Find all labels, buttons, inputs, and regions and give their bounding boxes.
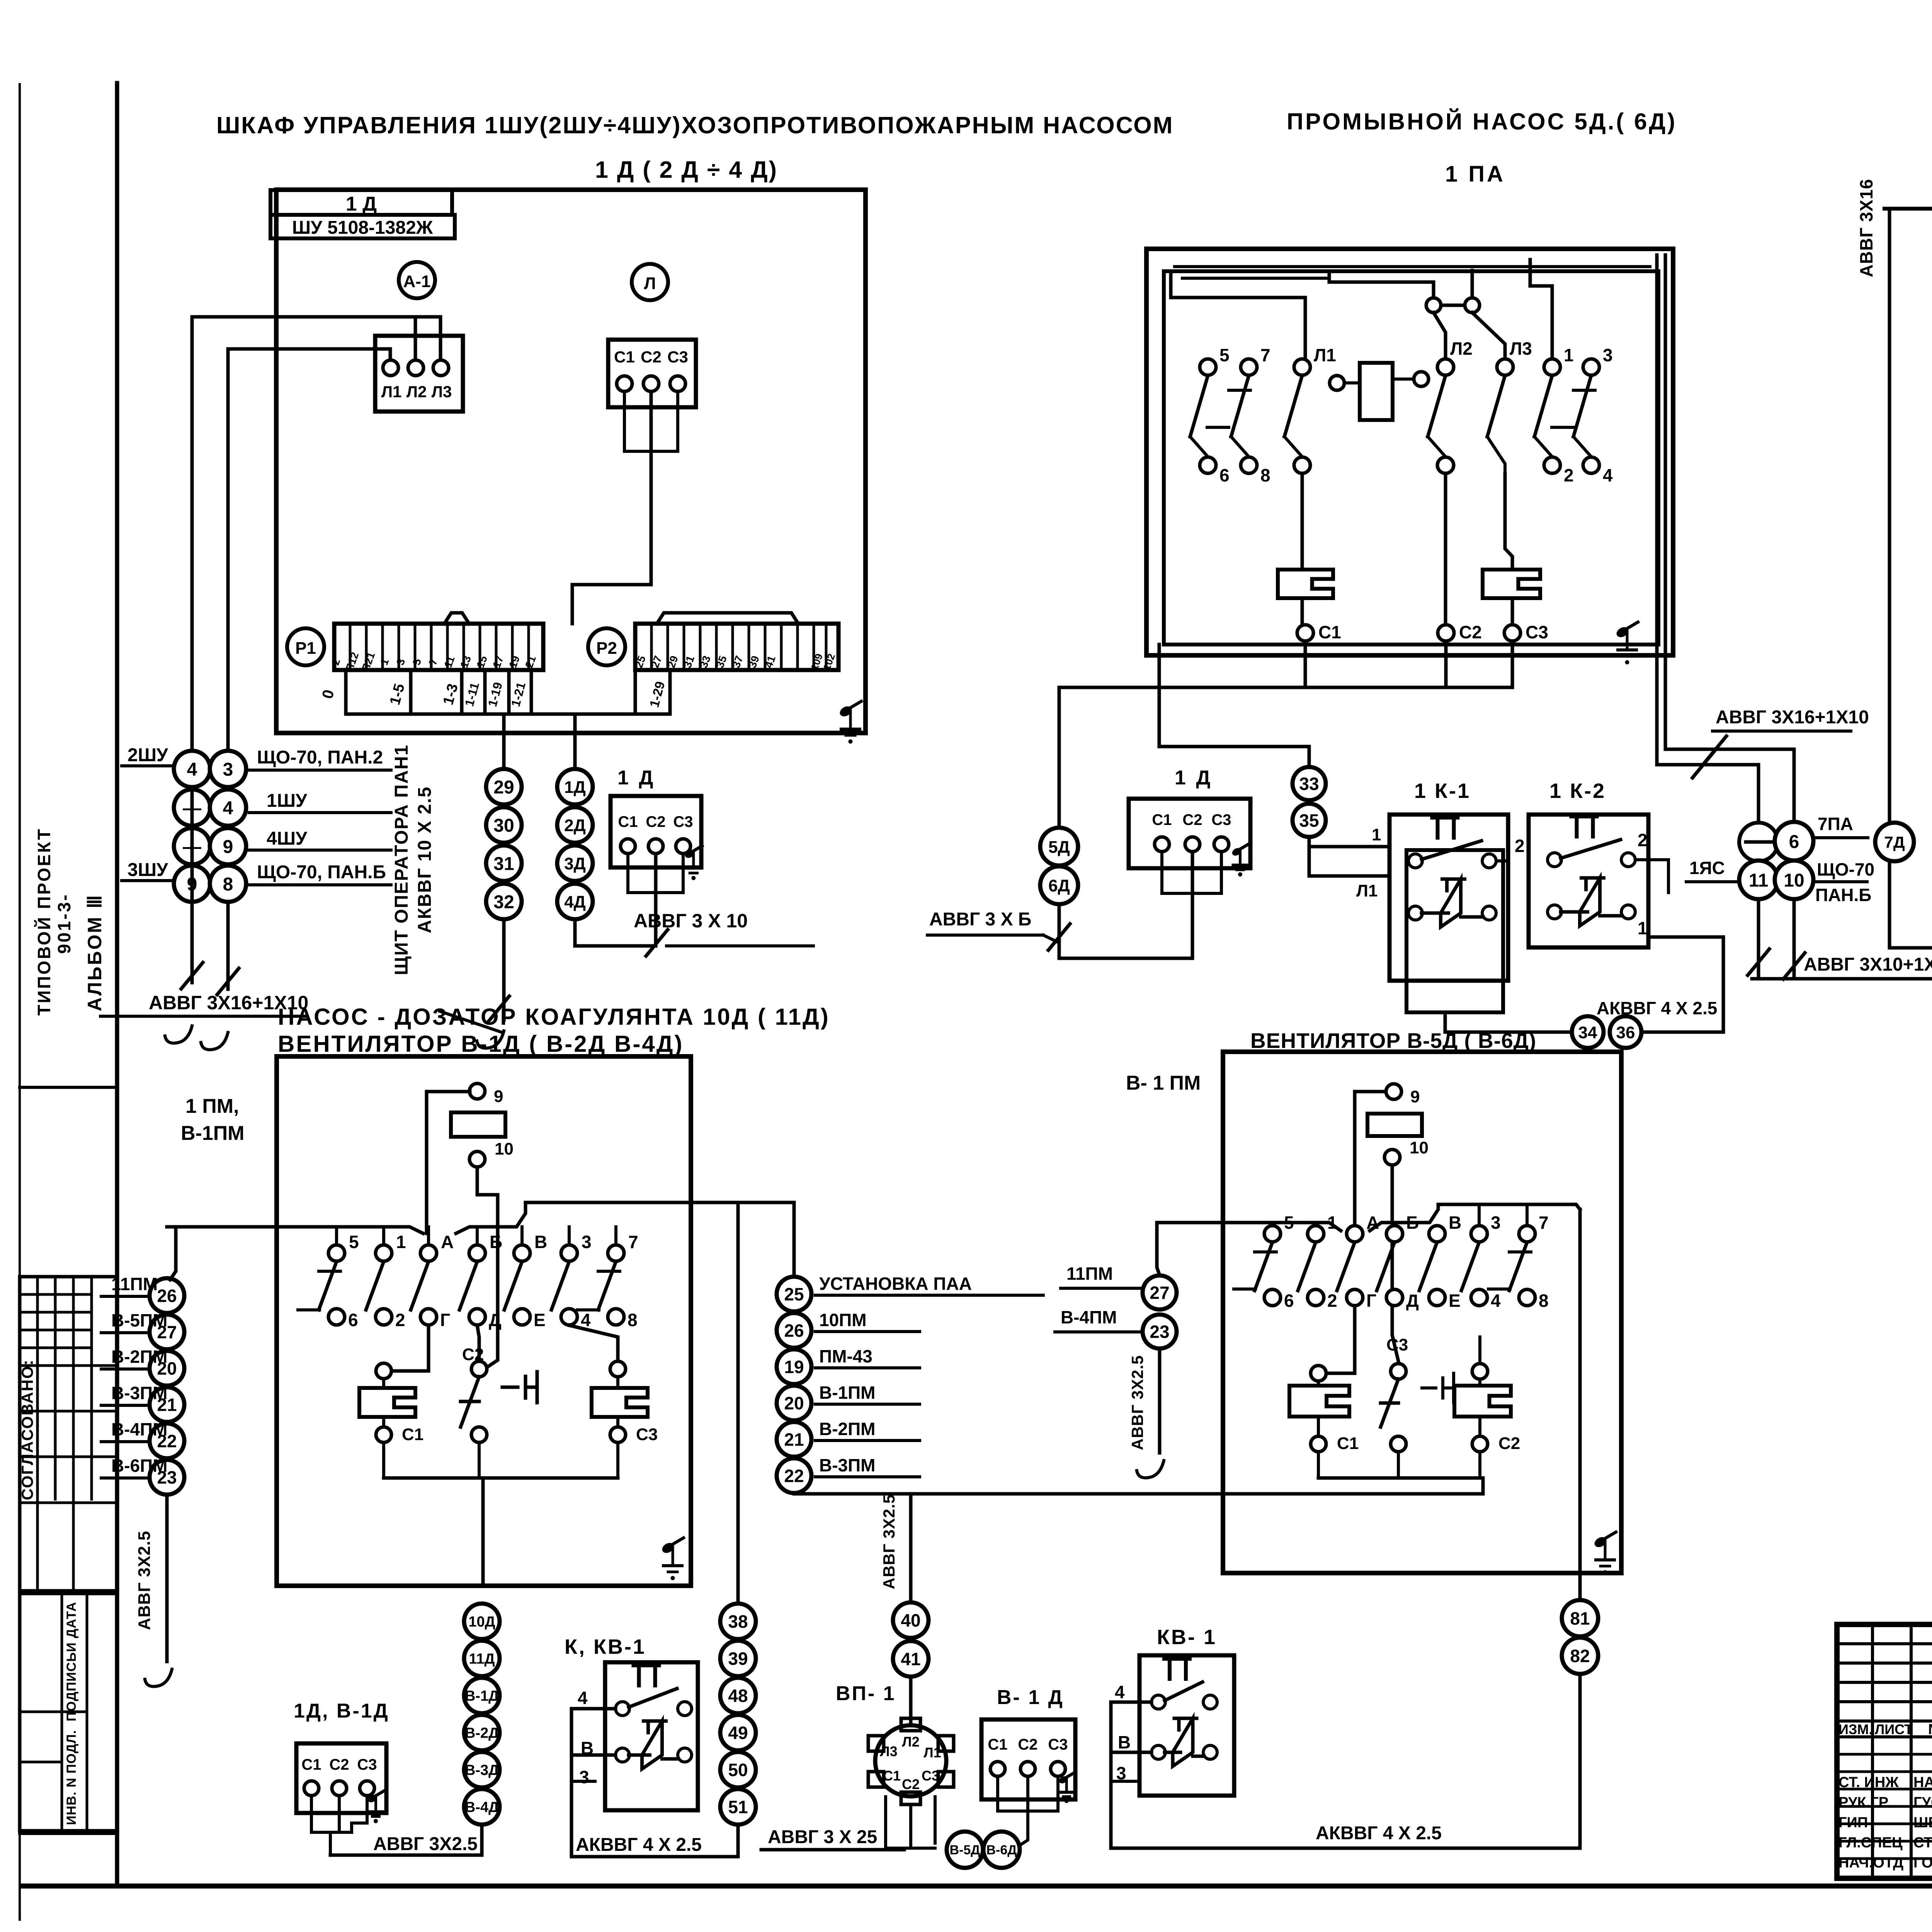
wire 40 up rotated label <box>880 1494 911 1602</box>
svg-text:В-6ПМ: В-6ПМ <box>111 1456 168 1476</box>
svg-text:АВВГ 3Х2.5: АВВГ 3Х2.5 <box>135 1531 154 1630</box>
svg-text:1Д: 1Д <box>564 778 586 797</box>
svg-text:ЩО-70: ЩО-70 <box>1817 859 1874 879</box>
svg-text:11: 11 <box>442 655 457 669</box>
wire top junctions <box>1329 270 1505 366</box>
rotated label Щит оператора ПАН1 <box>391 744 412 975</box>
svg-text:АВВГ 3Х16+1Х10: АВВГ 3Х16+1Х10 <box>1716 707 1869 728</box>
svg-text:С2: С2 <box>1459 622 1482 642</box>
motor box 1Д В-1Д <box>294 1700 389 1823</box>
contact bars block4 <box>298 1271 620 1310</box>
svg-text:8: 8 <box>1539 1291 1549 1311</box>
terminals block2 row1 <box>1200 338 1613 375</box>
wire bus to 25 <box>793 1202 796 1277</box>
title 1Д (2Д-4Д) <box>595 156 778 183</box>
svg-text:А-1: А-1 <box>403 272 431 291</box>
svg-text:7: 7 <box>1260 345 1270 365</box>
wire to column 29 <box>502 714 506 769</box>
svg-text:С3: С3 <box>1211 811 1231 828</box>
sidebar text 901-3- <box>54 893 74 954</box>
wire В-1Д leads <box>998 1776 1058 1845</box>
cable circles 25-22 right <box>777 1274 1043 1493</box>
svg-text:27: 27 <box>1150 1283 1169 1303</box>
cable circles В-5Д В-6Д <box>947 1832 1020 1868</box>
terminal strip Р2 subbox 1-29 <box>635 670 670 714</box>
cable circles 1Д-4Д <box>557 769 593 919</box>
svg-text:Л3: Л3 <box>880 1743 897 1759</box>
svg-text:С3: С3 <box>357 1756 377 1773</box>
svg-text:АВВГ 3 Х Б: АВВГ 3 Х Б <box>929 909 1031 930</box>
svg-text:Е: Е <box>534 1310 546 1330</box>
wire right drop to 38 <box>736 1202 740 1604</box>
svg-text:Л1: Л1 <box>381 383 402 401</box>
wire 11 10 down <box>1748 899 1805 979</box>
svg-text:Д: Д <box>1406 1291 1419 1311</box>
wire drop 2ШУ-3ШУ left <box>190 753 194 983</box>
svg-text:РУК.ГР.: РУК.ГР. <box>1838 1794 1890 1811</box>
svg-text:НАСОС - ДОЗАТОР КОАГУЛЯНТА 10: НАСОС - ДОЗАТОР КОАГУЛЯНТА 10Д ( 11Д) <box>278 1004 830 1030</box>
svg-text:ЛИСТ: ЛИСТ <box>1875 1721 1913 1737</box>
svg-text:АВВГ 3Х16: АВВГ 3Х16 <box>1856 179 1876 277</box>
svg-text:В-2ПМ: В-2ПМ <box>819 1419 876 1439</box>
contactor left block4 <box>359 1325 429 1444</box>
svg-text:А: А <box>441 1232 454 1252</box>
svg-text:7: 7 <box>1539 1213 1549 1233</box>
cable АКВВГ 4Х2.5 label block2 <box>1597 998 1717 1018</box>
wire motor1Д leads <box>628 854 683 946</box>
svg-text:21: 21 <box>523 654 538 670</box>
svg-text:6Д: 6Д <box>1048 876 1070 895</box>
bus block5 left <box>1157 1223 1341 1231</box>
cable circles row 3 <box>174 828 246 864</box>
contactor mid block4 <box>461 1325 537 1442</box>
wire 35 to 1К-1 <box>1309 825 1389 900</box>
terminal strip circle Р1 <box>287 628 324 665</box>
svg-text:6: 6 <box>1219 465 1230 485</box>
svg-text:В-2Д: В-2Д <box>465 1725 499 1742</box>
svg-text:1 Д: 1 Д <box>346 193 377 215</box>
label АВВГ 3Х16+1Х10 bottom left <box>100 992 308 1016</box>
svg-text:81: 81 <box>1570 1609 1590 1629</box>
svg-text:СОГЛАСОВАНО:: СОГЛАСОВАНО: <box>18 1359 36 1500</box>
svg-text:7: 7 <box>628 1232 638 1252</box>
svg-text:3: 3 <box>223 759 233 780</box>
svg-text:1 К-2: 1 К-2 <box>1549 779 1606 803</box>
svg-text:2: 2 <box>1564 465 1574 485</box>
wire stub Л1 <box>389 349 392 366</box>
svg-text:19: 19 <box>507 654 522 670</box>
wire feeder to 7ПА <box>1657 255 1759 823</box>
svg-text:АКВВГ 4 Х 2.5: АКВВГ 4 Х 2.5 <box>1316 1823 1442 1844</box>
svg-text:5: 5 <box>1219 345 1230 365</box>
cabinet label box 1Д <box>270 190 452 215</box>
ground block4 <box>661 1538 684 1580</box>
cable slash АВВГ 3Х10 <box>646 930 668 956</box>
relay coil block2 <box>1330 363 1446 420</box>
terminal box А-1 Л1Л2Л3 <box>375 336 463 412</box>
svg-text:1 К-1: 1 К-1 <box>1414 779 1471 803</box>
bus contactor bottoms block5 <box>1318 1452 1480 1478</box>
pump cabinet outer box <box>1146 249 1673 655</box>
svg-text:23: 23 <box>1150 1322 1169 1342</box>
svg-text:АВВГ 3 Х 25: АВВГ 3 Х 25 <box>768 1827 877 1847</box>
wire Л box to strips <box>572 391 678 624</box>
svg-text:Л1: Л1 <box>1314 345 1336 365</box>
svg-text:51: 51 <box>728 1797 748 1817</box>
terminals block2 row2 <box>1200 457 1613 485</box>
sidebar top rule <box>20 1086 117 1089</box>
cable circles 38-51 <box>720 1604 756 1825</box>
device circle А-1 <box>399 262 435 298</box>
svg-text:11ПМ: 11ПМ <box>111 1274 158 1294</box>
svg-text:30: 30 <box>493 815 514 836</box>
terminal strip hump Р1 <box>444 613 469 624</box>
title block header row <box>1838 1721 1932 1738</box>
wire stubs block5 <box>1272 1204 1527 1225</box>
wire 10 drop block5 <box>1392 1165 1398 1361</box>
wire drop right col <box>226 902 230 989</box>
svg-text:1 ПМ,: 1 ПМ, <box>185 1095 239 1117</box>
svg-text:Л2: Л2 <box>406 383 427 401</box>
svg-text:N ДОКУМ.: N ДОКУМ. <box>1928 1721 1932 1738</box>
svg-text:Л3: Л3 <box>432 383 452 401</box>
svg-text:В-3ПМ: В-3ПМ <box>819 1455 876 1475</box>
svg-text:ВП- 1: ВП- 1 <box>836 1682 896 1705</box>
sidebar table Согласовано <box>18 1277 117 1591</box>
sidebar bottom rule <box>20 1832 117 1835</box>
ground in cabinet <box>838 701 861 743</box>
title Вентилятор В-1Д <box>278 1031 684 1057</box>
wire bus to 26 <box>170 1227 176 1280</box>
svg-text:29: 29 <box>493 777 514 798</box>
svg-text:С3: С3 <box>636 1425 658 1444</box>
svg-text:В-4ПМ: В-4ПМ <box>111 1419 168 1439</box>
wire stub Л2 <box>414 317 417 366</box>
svg-text:2: 2 <box>1638 830 1648 850</box>
cable circles 5Д 6Д <box>1040 828 1078 904</box>
svg-text:С1: С1 <box>1337 1434 1359 1453</box>
svg-text:35: 35 <box>1299 811 1319 831</box>
title block names <box>1838 1774 1932 1871</box>
cable circles row 1 <box>122 745 391 787</box>
svg-text:1-29: 1-29 <box>647 680 668 709</box>
cable circles 33 35 <box>1293 767 1326 837</box>
ground block2 <box>1615 622 1638 664</box>
svg-text:С3: С3 <box>1386 1335 1408 1354</box>
svg-text:Р2: Р2 <box>596 639 617 658</box>
svg-text:82: 82 <box>1570 1646 1590 1666</box>
cable slashes АВВГ3х16 <box>181 963 239 995</box>
svg-text:17: 17 <box>490 654 506 670</box>
svg-text:С1: С1 <box>883 1768 901 1784</box>
wire 1К-1 exit <box>1445 861 1572 1032</box>
wire motor leads to cable <box>311 1796 367 1855</box>
switch ВП-1 <box>868 1677 954 1804</box>
svg-text:АЛЬБОМ Ⅲ: АЛЬБОМ Ⅲ <box>84 894 105 1012</box>
svg-text:К, КВ-1: К, КВ-1 <box>565 1635 646 1658</box>
svg-text:С1: С1 <box>1318 622 1341 642</box>
svg-text:26: 26 <box>784 1321 804 1341</box>
svg-text:5Д: 5Д <box>1048 838 1070 857</box>
wires С to bus block2 <box>1059 641 1512 827</box>
svg-text:ЩО-70, ПАН.2: ЩО-70, ПАН.2 <box>257 747 383 768</box>
svg-text:АВВГ 3Х2.5: АВВГ 3Х2.5 <box>373 1834 478 1854</box>
svg-text:10Д: 10Д <box>468 1614 495 1630</box>
svg-text:АВВГ 3Х10+1ХБ: АВВГ 3Х10+1ХБ <box>1804 954 1932 975</box>
device circle Л <box>632 264 668 300</box>
svg-text:АВВГ 3 Х 10: АВВГ 3 Х 10 <box>634 910 748 932</box>
pump cabinet inner box <box>1164 271 1658 645</box>
svg-text:А: А <box>1366 1213 1379 1233</box>
wire 6Д down <box>1048 904 1070 958</box>
svg-text:ТИПОВОЙ ПРОЕКТ: ТИПОВОЙ ПРОЕКТ <box>34 828 54 1016</box>
svg-text:В-1Д: В-1Д <box>465 1688 499 1704</box>
svg-text:4: 4 <box>187 759 197 780</box>
svg-text:21: 21 <box>784 1430 804 1450</box>
wire 1К-2 exits <box>1635 860 1668 904</box>
svg-text:С2: С2 <box>902 1776 920 1792</box>
svg-text:3ШУ: 3ШУ <box>128 860 168 880</box>
sheet frame left thin line <box>19 84 21 1920</box>
svg-text:ГЛ.СПЕЦ: ГЛ.СПЕЦ <box>1838 1835 1903 1851</box>
cable hooks <box>165 1026 228 1050</box>
svg-text:38: 38 <box>728 1612 748 1632</box>
svg-text:1: 1 <box>378 657 391 667</box>
svg-text:1 Д: 1 Д <box>1175 767 1213 789</box>
label ЩО-70 ПАН.Б <box>1814 859 1874 905</box>
svg-text:901-3-: 901-3- <box>54 893 74 954</box>
svg-text:48: 48 <box>728 1686 748 1706</box>
label 2 right 1К-1 <box>1515 836 1525 856</box>
svg-text:Л: Л <box>644 274 656 293</box>
svg-text:С2: С2 <box>329 1756 349 1773</box>
cable АКВВГ 4Х2.5 label block5 <box>1316 1823 1442 1844</box>
relay coil 9-10 block4 <box>451 1083 514 1167</box>
contactor box 1К-1 <box>1389 779 1508 1012</box>
contact bars block2 <box>1190 390 1595 474</box>
rotated label АВВГ 3Х2.5 block5 <box>1128 1349 1164 1478</box>
svg-text:Р1: Р1 <box>295 639 316 658</box>
wire feeder lower <box>228 349 390 764</box>
sheet frame bottom border <box>22 1884 1932 1889</box>
wire top bus1 block2 <box>1171 298 1305 366</box>
label 1ШУ underline <box>249 791 391 813</box>
svg-text:8: 8 <box>1260 465 1270 485</box>
cable АКВВГ 4Х2.5 label <box>576 1835 702 1855</box>
svg-text:11Д: 11Д <box>469 1651 495 1667</box>
svg-text:КВ- 1: КВ- 1 <box>1157 1626 1217 1649</box>
bus contactor bottoms block4 <box>384 1442 618 1586</box>
svg-text:Г: Г <box>440 1310 450 1330</box>
relay coil 9-10 block5 <box>1367 1084 1429 1165</box>
starter box В-5Д <box>1223 1052 1621 1573</box>
title 1ПА <box>1445 162 1505 187</box>
svg-text:1-11: 1-11 <box>462 681 482 707</box>
cable АВВГ 3Х2.5 bottom <box>330 1825 482 1855</box>
svg-text:1: 1 <box>1327 1213 1337 1233</box>
wire to column 1Д <box>573 714 577 769</box>
cable circles 11/10 <box>1739 861 1813 899</box>
svg-text:В-5ПМ: В-5ПМ <box>111 1310 168 1330</box>
svg-text:19: 19 <box>784 1357 804 1377</box>
label АВВГ 3Х16 rotated <box>1856 179 1876 277</box>
wire stub Л3 <box>439 317 442 366</box>
wire motor leads block2 <box>1059 852 1221 958</box>
svg-text:С3: С3 <box>1048 1736 1068 1753</box>
cable circles -/6 <box>1739 822 1813 861</box>
cable circles 27 23 <box>1143 1276 1177 1349</box>
svg-text:4ШУ: 4ШУ <box>267 828 308 849</box>
svg-text:Л1: Л1 <box>923 1745 941 1760</box>
svg-text:Б: Б <box>490 1232 502 1252</box>
svg-text:5: 5 <box>1284 1213 1294 1233</box>
svg-text:31: 31 <box>493 854 514 874</box>
blower feeder top <box>1884 207 1932 211</box>
svg-text:4: 4 <box>1115 1682 1125 1702</box>
wire feeder upper <box>192 317 440 764</box>
svg-text:9: 9 <box>1410 1087 1420 1106</box>
svg-text:ШКАФ УПРАВЛЕНИЯ 1ШУ(2ШУ÷4ШУ)Х: ШКАФ УПРАВЛЕНИЯ 1ШУ(2ШУ÷4ШУ)ХОЗОПРОТИВОП… <box>216 112 1174 138</box>
rotated label АКВВГ 10Х2.5 <box>415 786 435 934</box>
cable circles 81 82 <box>1562 1600 1598 1674</box>
svg-text:ПАН.Б: ПАН.Б <box>1815 885 1871 905</box>
bus block4 left <box>167 1227 423 1233</box>
svg-text:ГУСЕВА: ГУСЕВА <box>1913 1794 1932 1811</box>
limit switch КВ-1 block5 <box>1115 1626 1234 1796</box>
wire bus to 27 <box>1157 1223 1160 1275</box>
svg-text:13: 13 <box>458 654 473 670</box>
contactor right block5 <box>1454 1306 1542 1453</box>
svg-text:УСТАНОВКА ПАА: УСТАНОВКА ПАА <box>819 1274 972 1294</box>
wire 9 to А block5 <box>1355 1092 1386 1233</box>
cable slashes feeder <box>1692 736 1726 778</box>
svg-text:5: 5 <box>349 1232 359 1252</box>
svg-text:В-4Д: В-4Д <box>465 1799 499 1816</box>
contact bars block5 <box>1234 1252 1531 1289</box>
svg-text:Л1: Л1 <box>1356 881 1378 900</box>
terminals block4 <box>319 1227 638 1330</box>
svg-text:Д: Д <box>489 1310 502 1330</box>
svg-text:1ШУ: 1ШУ <box>267 791 308 811</box>
svg-text:ШУ 5108-1382Ж: ШУ 5108-1382Ж <box>292 218 433 238</box>
svg-text:АКВВГ 4 Х 2.5: АКВВГ 4 Х 2.5 <box>576 1835 702 1855</box>
label АВВГ 3Х10 <box>634 910 813 946</box>
cable circles 10Д-В4Д <box>464 1604 500 1825</box>
svg-text:40: 40 <box>901 1611 920 1631</box>
svg-text:2: 2 <box>1515 836 1525 856</box>
wire coil connections <box>1302 386 1446 448</box>
svg-text:9: 9 <box>494 1087 503 1106</box>
bus АВВГ 3Х10 <box>1752 963 1932 979</box>
svg-text:ЩО-70, ПАН.Б: ЩО-70, ПАН.Б <box>257 862 386 883</box>
title Промывной насос <box>1287 109 1677 134</box>
svg-text:33: 33 <box>1299 774 1319 794</box>
svg-text:22: 22 <box>784 1466 804 1486</box>
wire top extra bus <box>1175 267 1650 278</box>
svg-text:С1: С1 <box>1152 811 1172 828</box>
svg-text:С1: С1 <box>614 348 635 366</box>
svg-text:36: 36 <box>1616 1023 1635 1042</box>
wire КВ-1 bracket <box>571 1709 738 1857</box>
wire 22 to block5 <box>794 1478 1483 1494</box>
motor box 1Д block1 <box>611 767 702 880</box>
svg-text:В: В <box>534 1232 547 1252</box>
svg-text:11: 11 <box>1749 870 1769 891</box>
svg-text:Л2: Л2 <box>902 1734 919 1750</box>
limit switch КВ-1 block4 <box>578 1662 698 1810</box>
svg-text:32: 32 <box>493 892 514 912</box>
sheet frame left border <box>115 83 119 1886</box>
title ШКАФ УПРАВЛЕНИЯ <box>216 112 1174 138</box>
motor box 1Д block2 <box>1129 767 1250 876</box>
svg-text:2ШУ: 2ШУ <box>128 745 168 765</box>
svg-text:26: 26 <box>157 1286 177 1306</box>
wires ВП-1 leads <box>886 1797 935 1848</box>
svg-text:ГИП: ГИП <box>1838 1815 1868 1831</box>
cable circles 29-32 <box>486 769 522 919</box>
svg-text:НАБИУЛЛИНА: НАБИУЛЛИНА <box>1913 1774 1932 1791</box>
svg-text:41: 41 <box>901 1649 920 1669</box>
svg-text:АВВГ 3Х2.5: АВВГ 3Х2.5 <box>1128 1355 1146 1450</box>
svg-text:5: 5 <box>410 657 423 667</box>
label АВВГ 3Х16+1Х10 mid <box>1713 707 1869 731</box>
svg-text:ГОЛЬЦМАН: ГОЛЬЦМАН <box>1913 1855 1932 1871</box>
svg-text:НАЧ.ОТД: НАЧ.ОТД <box>1838 1855 1903 1871</box>
svg-text:С1: С1 <box>988 1736 1007 1753</box>
svg-text:3: 3 <box>579 1767 589 1787</box>
svg-text:Г: Г <box>1366 1291 1376 1311</box>
svg-text:В-2ПМ: В-2ПМ <box>111 1347 168 1367</box>
svg-text:С2: С2 <box>646 813 665 830</box>
svg-text:ЩИТ ОПЕРАТОРА ПАН1: ЩИТ ОПЕРАТОРА ПАН1 <box>391 744 412 975</box>
svg-text:2Д: 2Д <box>564 816 586 835</box>
label 7ПА <box>1814 814 1868 838</box>
svg-text:ВЕНТИЛЯТОР В-5Д ( В-6Д): ВЕНТИЛЯТОР В-5Д ( В-6Д) <box>1250 1029 1536 1053</box>
wire below 4Д <box>575 919 654 946</box>
label АВВГ 3Х6 <box>927 909 1059 943</box>
svg-text:1 Д: 1 Д <box>617 767 655 789</box>
wire 82 down <box>1578 1674 1582 1848</box>
wire top bus2 block2 <box>1171 260 1584 298</box>
wire strip Р1 bottom bus <box>346 713 670 716</box>
label К КВ-1 <box>565 1635 646 1658</box>
svg-text:50: 50 <box>728 1760 748 1780</box>
svg-text:ПОДПИСЬИ ДАТА: ПОДПИСЬИ ДАТА <box>64 1602 79 1721</box>
sidebar text Типовой проект <box>34 828 54 1016</box>
contactor right block4 <box>569 1325 658 1444</box>
title block grid <box>1837 1624 1932 1878</box>
contactor mid block5 <box>1381 1306 1454 1452</box>
svg-text:3: 3 <box>1603 345 1613 365</box>
label АВВГ 3Х10+1Х6 <box>1804 954 1932 975</box>
svg-text:ШЕРСТЯКОВА: ШЕРСТЯКОВА <box>1913 1815 1932 1831</box>
label ВП-1 <box>836 1682 896 1705</box>
wire below 32 <box>440 919 509 1048</box>
cable circles 34 36 <box>1572 1016 1641 1048</box>
svg-text:В-3Д: В-3Д <box>465 1762 499 1779</box>
svg-text:С2: С2 <box>1182 811 1202 828</box>
label АВВГ 3Х25 <box>761 1827 904 1850</box>
svg-text:СТЕПАНЕНКО: СТЕПАНЕНКО <box>1913 1835 1932 1851</box>
cable circles 26-23 left <box>101 1274 184 1495</box>
bus block4 right <box>456 1202 794 1233</box>
svg-text:С2: С2 <box>1498 1434 1520 1453</box>
svg-text:4: 4 <box>1603 465 1613 485</box>
svg-text:1-3: 1-3 <box>440 682 461 707</box>
cable circles 40 41 <box>893 1602 929 1677</box>
svg-text:АВВГ 3Х2.5: АВВГ 3Х2.5 <box>880 1494 898 1589</box>
title Насос-дозатор <box>278 1004 830 1030</box>
